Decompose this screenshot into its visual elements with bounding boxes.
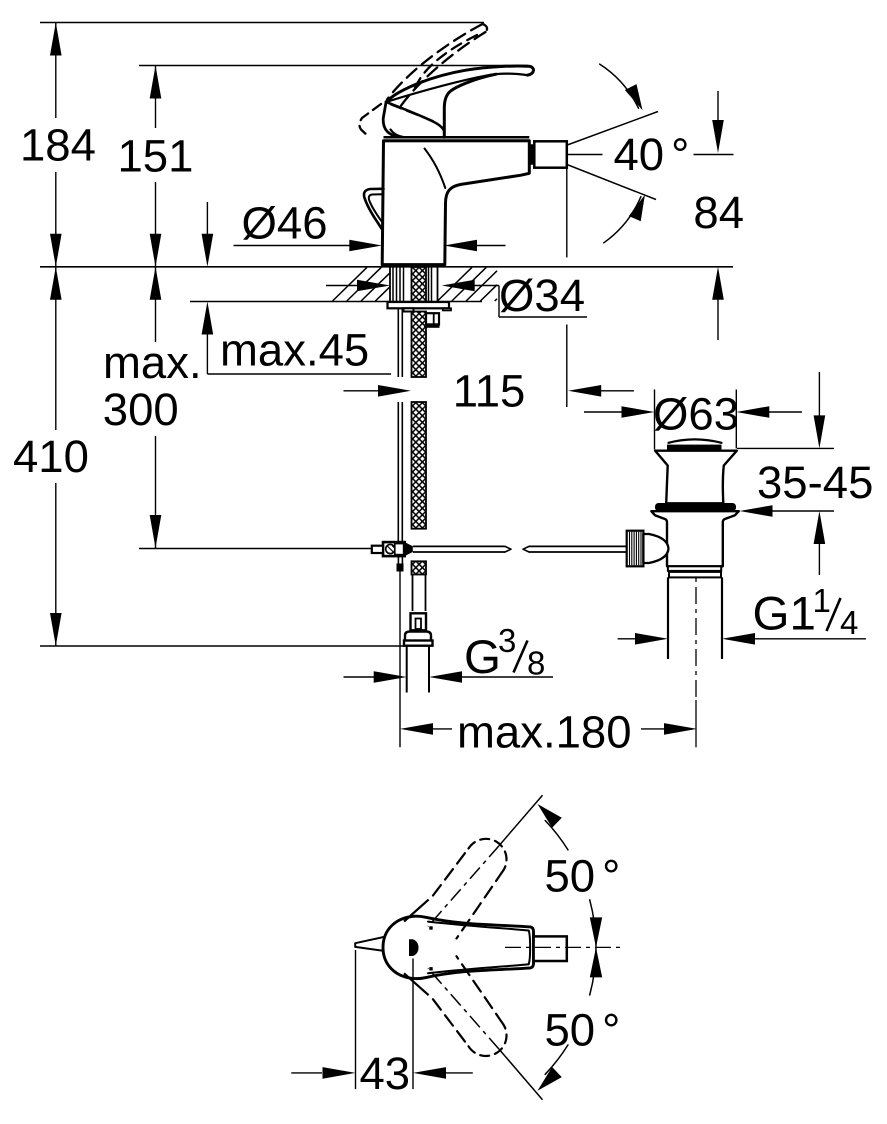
deck cut hatching left of hole — [333, 267, 391, 301]
lever top edge — [386, 66, 533, 102]
dimension max.45 upper arrow — [202, 202, 214, 267]
svg-text:4: 4 — [840, 604, 858, 641]
lever neck right edge — [444, 74, 496, 137]
dimension 84 lower arrow — [712, 267, 724, 340]
threaded shank crosshatch in deck — [412, 267, 427, 302]
label 40 deg — [614, 129, 690, 180]
dimension Ø63 arrow left — [584, 406, 655, 418]
shank internals in deck hole — [393, 267, 432, 302]
hose smooth segment — [413, 575, 426, 612]
spout axis tick left — [568, 154, 603, 156]
top view centerline — [505, 946, 621, 948]
svg-text:43: 43 — [360, 1048, 411, 1099]
pop-up rod upper — [398, 308, 402, 377]
svg-text:G: G — [464, 631, 501, 684]
svg-text:8: 8 — [527, 645, 545, 682]
angle 50 upper arc segment near centerline — [590, 900, 603, 948]
svg-text:300: 300 — [103, 384, 179, 435]
dimension 43 arrow right — [413, 1067, 473, 1079]
drain tailpipe — [668, 577, 722, 659]
rotated lever up dashed end cap — [469, 839, 507, 870]
connection pipe G3/8 — [407, 646, 429, 693]
aerator spacer black — [530, 144, 542, 164]
rotated lever axis up — [428, 795, 543, 926]
svg-text:3: 3 — [498, 622, 516, 659]
extension line top of lever (151 ref) — [139, 65, 528, 67]
label G1 1/4 — [753, 582, 859, 641]
top view lever end face — [529, 931, 530, 965]
dimension 115 arrow right — [568, 385, 634, 397]
drain plug cap — [667, 439, 722, 450]
svg-text:410: 410 — [13, 431, 89, 482]
spray angle lower arc with arrowhead — [604, 195, 645, 243]
rotated lever up dashed top edge — [404, 849, 469, 922]
dimension G3/8 arrow left — [344, 671, 407, 683]
dimension max.180 arrows — [400, 723, 697, 735]
pop-up rod tee — [383, 542, 413, 556]
svg-text:G1: G1 — [753, 588, 816, 641]
svg-text:40°: 40° — [614, 129, 690, 180]
rotated lever down dashed bottom edge — [404, 973, 469, 1046]
aerator body — [534, 141, 567, 167]
dimension Ø34 arrow left — [326, 280, 390, 292]
top view lever inner bottom line — [428, 964, 529, 973]
angle 50 upper arc segment near line — [538, 804, 569, 850]
mounting washer — [388, 302, 452, 312]
open handle dashed outline lower edge — [400, 32, 486, 107]
dimension 35-45 upper arrow — [814, 372, 826, 448]
angle 50 lower arc segment near centerline — [590, 947, 603, 995]
deck hole right edge — [437, 267, 439, 302]
dimension 410 line — [50, 267, 62, 646]
handle dome outline — [383, 102, 397, 137]
svg-text:max.: max. — [103, 337, 202, 388]
top view pop-up knob wedge — [355, 937, 384, 951]
dimension 35-45 label — [757, 457, 873, 508]
horizontal pop-up rod left segment — [413, 546, 511, 552]
dimension 43 arrow left — [291, 1067, 355, 1079]
svg-text:50°: 50° — [545, 1004, 621, 1055]
extension line faucet axis (max.180 ref) — [399, 572, 401, 748]
svg-text:1: 1 — [813, 582, 831, 619]
open handle dashed tip — [483, 24, 488, 32]
braided hose segment 1 — [412, 312, 427, 378]
rotated lever axis down — [428, 968, 543, 1099]
dimension max.45 label — [220, 325, 369, 376]
spout axis tick right — [694, 154, 734, 156]
svg-text:184: 184 — [20, 120, 96, 171]
dimension Ø46 label — [242, 198, 328, 249]
pop-up rod knob outer — [364, 189, 384, 229]
svg-text:50°: 50° — [545, 851, 621, 902]
drain seal ring — [655, 503, 736, 511]
svg-text:84: 84 — [693, 187, 744, 238]
rotated lever up dashed bottom edge — [457, 870, 504, 938]
pop-up rod middle — [398, 402, 402, 542]
extension line pop-up tee (max.300 ref) — [139, 548, 372, 550]
pop-up rod tail — [397, 556, 404, 571]
spray angle lower line — [542, 155, 657, 200]
pop-up rod tee left nub — [372, 546, 383, 553]
hose end coupling — [411, 613, 427, 630]
dimension G3/8 arrow right — [429, 671, 553, 683]
drain body with flange — [651, 511, 739, 566]
dimension Ø63 arrow right — [736, 406, 802, 418]
dimension Ø34 leader box — [499, 286, 587, 318]
faucet body outline — [382, 141, 529, 265]
open handle dashed inner fold — [413, 35, 478, 94]
svg-text:Ø46: Ø46 — [242, 198, 328, 249]
drain upper cup — [655, 451, 737, 504]
dimension max.45 lower arrow and leader — [202, 302, 391, 375]
deck hole left edge — [389, 267, 391, 302]
dimension 184 label — [20, 120, 96, 171]
dimension Ø34 label — [499, 270, 585, 321]
spray angle upper arc with arrowhead — [600, 64, 643, 110]
top view aerator — [534, 936, 567, 961]
handle dome front arc — [391, 130, 404, 137]
deck cut hatching right of hole — [438, 267, 498, 301]
dimension max.300 line — [150, 267, 162, 548]
second hose stub fitting — [424, 313, 440, 328]
svg-text:max.180: max.180 — [457, 706, 632, 757]
drain rod connector — [643, 534, 668, 563]
svg-text:Ø63: Ø63 — [653, 389, 739, 440]
dimension 151 label — [118, 130, 194, 181]
extension line drain right (Ø63 / 35-45 ref) — [735, 390, 737, 449]
deck bottom line — [190, 301, 482, 303]
svg-text:115: 115 — [453, 366, 526, 417]
lever underside — [386, 102, 444, 132]
top view screw dots — [429, 926, 432, 970]
angle 50 lower arc segment near line — [538, 1045, 569, 1091]
lever inner line — [386, 74, 527, 102]
drain centerline — [695, 556, 697, 747]
top view lever inner top line — [428, 922, 529, 931]
horizontal pop-up rod right segment — [523, 546, 627, 552]
braided hose segment 2 — [412, 402, 427, 529]
faucet body transition curve — [425, 149, 446, 189]
top view cartridge mark — [409, 939, 419, 956]
dimension max.300 label line2 — [103, 384, 179, 435]
braided hose segment 3 — [412, 561, 427, 574]
extension line top of open handle (184 ref) — [40, 22, 484, 24]
hose nut — [404, 632, 433, 646]
deck top line / main reference line — [40, 266, 733, 268]
extension line hose end (410 ref) — [40, 645, 404, 647]
dimension 84 upper arrow — [712, 91, 724, 153]
rotated lever down dashed end cap — [469, 1025, 507, 1056]
dimension 410 label — [13, 431, 89, 482]
dimension Ø46 line right — [444, 240, 506, 252]
spray angle upper line — [542, 112, 659, 155]
handle dome hidden edge dashed — [391, 105, 433, 122]
label G3/8 — [464, 622, 545, 684]
dimension 184 line — [50, 23, 62, 267]
dimension 35-45 lower tick — [740, 505, 835, 517]
extension line drain left (Ø63 ref) — [654, 390, 656, 450]
svg-text:151: 151 — [118, 130, 194, 181]
dimension 35-45 upper tick — [737, 447, 834, 449]
extension line cartridge (43 ref) — [412, 959, 414, 1090]
drain neck ring 1 — [668, 566, 721, 571]
label 50 deg upper — [545, 851, 621, 902]
extension line spout axis (115 ref) — [566, 169, 568, 408]
dimension 43 label — [360, 1048, 411, 1099]
dimension Ø34 arrow right — [442, 280, 499, 292]
dimension 115 arrow left — [344, 385, 412, 397]
rotated lever down dashed top edge — [457, 956, 504, 1024]
dimension 35-45 lower arrow — [814, 511, 826, 575]
dimension Ø63 label — [653, 389, 739, 440]
drain neck ring 2 — [669, 572, 721, 578]
svg-text:35-45: 35-45 — [757, 457, 873, 508]
faucet body top seam — [384, 137, 530, 141]
pop-up rod knob inner — [369, 194, 384, 222]
dimension 115 label — [453, 366, 526, 417]
dimension G1 1/4 arrow right — [722, 633, 866, 645]
top view body outline — [383, 916, 534, 978]
svg-text:Ø34: Ø34 — [499, 270, 585, 321]
extension line knob tip (43 ref) — [355, 950, 357, 1089]
dimension max.300 label line1 — [103, 337, 202, 388]
label 50 deg lower — [545, 1004, 621, 1055]
dimension 84 label — [693, 187, 744, 238]
dimension G1 1/4 arrow left — [618, 633, 668, 645]
open handle dashed outline upper edge — [387, 24, 483, 100]
dimension max.180 label — [457, 706, 632, 757]
open handle dashed dome left — [359, 104, 381, 137]
drain rod knurled knob — [627, 531, 644, 567]
dimension 151 line — [150, 66, 162, 267]
svg-text:max.45: max.45 — [220, 325, 369, 376]
dimension Ø46 line left — [234, 240, 383, 252]
